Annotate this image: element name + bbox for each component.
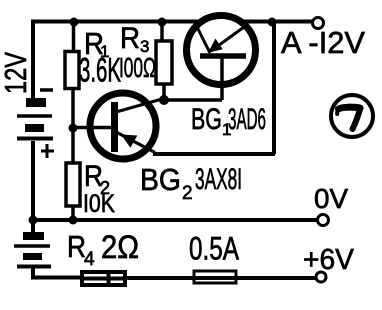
figure number 7 descender bbox=[353, 108, 361, 129]
node junction dot top rail R1 bbox=[70, 18, 79, 27]
fuse F1 0.5A body bbox=[194, 271, 236, 283]
wire R3 bottom lead bbox=[162, 84, 166, 100]
transistor BG1 emitter line bbox=[211, 27, 244, 51]
node junction dot R3 bottom / BG2 collector / BG1 base bbox=[159, 95, 169, 105]
svg-text:A -I2V: A -I2V bbox=[281, 25, 365, 60]
transistor BG1 collector line bbox=[197, 27, 210, 53]
svg-text:2: 2 bbox=[182, 183, 193, 204]
battery B1 plus sign bbox=[41, 144, 54, 158]
wire R1 top lead bbox=[72, 21, 76, 52]
wire R1 bottom lead to base node bbox=[71, 88, 75, 163]
node junction dot 0V R2 bbox=[69, 216, 78, 225]
transistor BG2 emitter line bbox=[117, 133, 155, 153]
svg-text:BG: BG bbox=[140, 162, 181, 197]
node junction dot 0V left bbox=[29, 216, 38, 225]
transistor BG2 emitter arrow bbox=[123, 135, 137, 146]
wire R3 top lead bbox=[160, 21, 164, 42]
battery B1 plate 4 long bbox=[17, 137, 53, 141]
node junction dot top rail R3 bbox=[158, 18, 167, 27]
svg-text:R: R bbox=[120, 22, 140, 55]
wire BG2 base lead bbox=[73, 126, 112, 130]
svg-text:I00Ω: I00Ω bbox=[119, 52, 156, 83]
svg-text:3AD6: 3AD6 bbox=[228, 103, 266, 136]
resistor R2 body bbox=[66, 163, 80, 206]
battery B1 plate 3 short thick bbox=[25, 124, 44, 132]
svg-text:BG: BG bbox=[191, 103, 222, 136]
svg-text:3AX8I: 3AX8I bbox=[195, 163, 242, 196]
terminal +6V open circle bbox=[316, 272, 326, 282]
wire right vertical emitter to top rail bbox=[272, 21, 276, 154]
svg-text:0.5A: 0.5A bbox=[189, 231, 239, 267]
wire battery B2 top lead bbox=[31, 220, 35, 233]
wire 0V rail bbox=[33, 218, 317, 222]
transistor Q2 BG2 circle bbox=[90, 93, 156, 159]
transistor BG2 base bar bbox=[111, 102, 118, 152]
node junction dot top rail right bbox=[268, 18, 277, 27]
transistor BG2 collector line bbox=[116, 99, 162, 112]
resistor R1 body bbox=[65, 52, 79, 89]
svg-text:3.6K: 3.6K bbox=[79, 52, 121, 90]
svg-text:+6V: +6V bbox=[303, 244, 355, 276]
wire BG1 base lead bbox=[220, 58, 224, 100]
wire node to BG1 base bbox=[164, 98, 222, 102]
transistor Q1 BG1 circle bbox=[187, 16, 256, 85]
transistor BG1 base bar bbox=[200, 53, 246, 59]
wire R4 to fuse bbox=[125, 276, 316, 280]
battery B2 plate 3 short thick bbox=[23, 253, 42, 260]
wire battery B2 to +6V rail corner bbox=[31, 268, 84, 278]
battery B2 plate 2 long bbox=[14, 244, 50, 248]
resistor R3 body bbox=[156, 41, 172, 84]
wire BG2 emitter horizontal bbox=[153, 152, 275, 156]
battery B2 plate 1 short thick bbox=[23, 232, 44, 240]
battery B2 plate 4 long bbox=[17, 265, 51, 269]
resistor R4 inner marks bbox=[84, 272, 124, 285]
transistor BG1 emitter arrow bbox=[210, 40, 222, 52]
wire R2 bottom lead bbox=[71, 206, 75, 220]
battery B1 plate 1 short thick bbox=[26, 98, 46, 107]
figure number circle 7 bbox=[331, 95, 373, 137]
resistor R4 body bbox=[82, 272, 125, 285]
terminal 0V open circle bbox=[318, 215, 329, 226]
battery B1 minus dash bbox=[40, 88, 53, 92]
figure number 7 glyph bbox=[339, 107, 361, 109]
svg-text:2Ω: 2Ω bbox=[101, 229, 139, 265]
figure number 7 hook bbox=[337, 109, 339, 114]
wire top -12V rail bbox=[33, 20, 312, 24]
svg-text:0V: 0V bbox=[314, 183, 348, 214]
terminal A open circle bbox=[313, 18, 324, 29]
svg-text:I0K: I0K bbox=[83, 190, 115, 218]
wire left vertical from top rail to battery B1 bbox=[31, 20, 35, 102]
wire left vertical battery B1 to 0V rail bbox=[31, 141, 35, 220]
svg-text:12V: 12V bbox=[0, 52, 33, 94]
battery B1 plate 2 long bbox=[17, 114, 52, 118]
svg-text:4: 4 bbox=[84, 249, 95, 270]
node junction dot BG2 base bbox=[69, 124, 78, 133]
